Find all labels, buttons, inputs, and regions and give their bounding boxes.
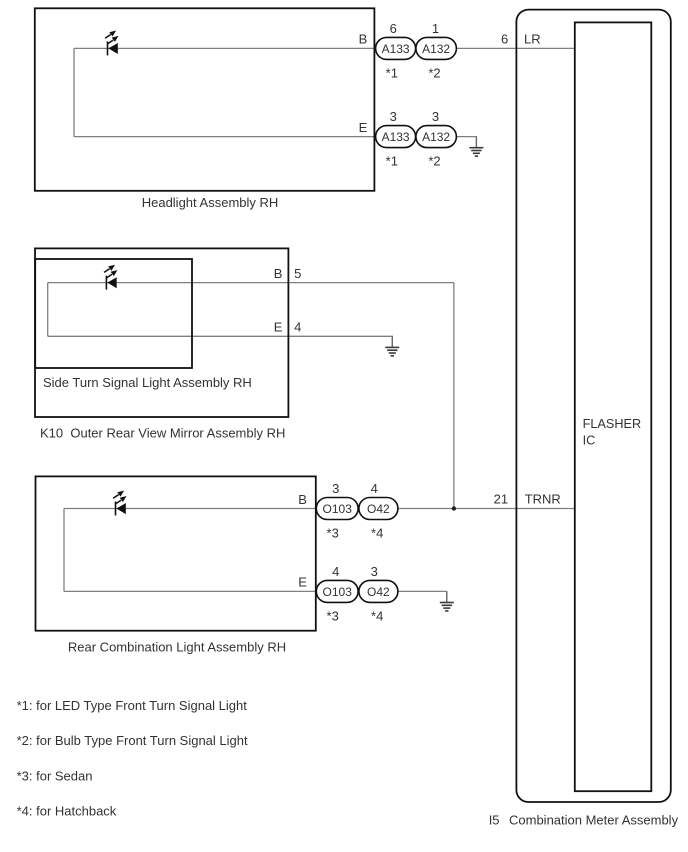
svg-text:6: 6	[501, 32, 508, 47]
svg-text:4: 4	[371, 481, 378, 496]
connector O103 row1	[316, 498, 358, 520]
junction dot	[452, 506, 456, 510]
svg-text:5: 5	[294, 266, 301, 281]
svg-text:1: 1	[432, 21, 439, 36]
svg-text:Rear Combination Light Assembl: Rear Combination Light Assembly RH	[68, 639, 286, 654]
svg-text:TRNR: TRNR	[525, 491, 561, 506]
svg-text:*4: *4	[371, 525, 383, 540]
wire row1 to meter	[456, 47, 574, 49]
svg-text:*4: *4	[371, 608, 383, 623]
svg-text:B: B	[359, 32, 368, 47]
svg-text:Headlight Assembly RH: Headlight Assembly RH	[142, 195, 279, 210]
connector A132 row1	[416, 37, 457, 59]
LED D2 side turn	[104, 265, 117, 290]
svg-text:*2: for Bulb Type Front Turn S: *2: for Bulb Type Front Turn Signal Ligh…	[17, 733, 248, 748]
svg-text:*1: *1	[386, 154, 398, 169]
svg-text:A133: A133	[382, 42, 410, 56]
svg-text:*2: *2	[428, 154, 440, 169]
box Headlight Assembly RH	[35, 8, 375, 191]
LED D3 rear	[113, 491, 126, 516]
svg-text:6: 6	[390, 21, 397, 36]
box FLASHER IC	[575, 22, 652, 791]
svg-text:A132: A132	[422, 42, 450, 56]
box Rear Combination Light Assembly RH	[36, 476, 316, 630]
ground G3	[440, 592, 454, 611]
svg-text:3: 3	[371, 564, 378, 579]
svg-text:A132: A132	[422, 130, 450, 144]
svg-text:*1: *1	[386, 65, 398, 80]
svg-text:FLASHER: FLASHER	[583, 417, 642, 431]
svg-text:E: E	[359, 120, 368, 135]
wire E2 to ground	[48, 336, 393, 347]
connector A133 row1	[376, 37, 416, 59]
svg-text:O42: O42	[367, 502, 390, 516]
svg-text:O103: O103	[323, 502, 353, 516]
svg-text:B: B	[298, 492, 307, 507]
svg-text:4: 4	[332, 564, 339, 579]
svg-text:3: 3	[332, 481, 339, 496]
connector A133 row2	[376, 126, 416, 148]
wire E3	[64, 590, 316, 592]
wire B2	[48, 282, 454, 284]
connector O103 row2	[316, 580, 358, 602]
LED D1 headlight	[105, 31, 118, 56]
svg-text:*2: *2	[428, 65, 440, 80]
svg-text:*4: for Hatchback: *4: for Hatchback	[17, 804, 117, 819]
wire B1 headlight	[74, 47, 376, 49]
box Side Turn Signal Light Assembly RH	[35, 259, 192, 368]
svg-text:3: 3	[390, 109, 397, 124]
wire E1 headlight	[74, 136, 376, 138]
svg-text:Side Turn Signal Light Assembl: Side Turn Signal Light Assembly RH	[43, 375, 252, 390]
wire row2 to ground	[456, 137, 476, 148]
svg-text:*1: for LED Type Front Turn Si: *1: for LED Type Front Turn Signal Light	[17, 698, 248, 713]
box I5 Combination Meter Assembly	[516, 10, 670, 802]
svg-text:Combination Meter Assembly: Combination Meter Assembly	[509, 812, 679, 827]
svg-text:*3: for Sedan: *3: for Sedan	[17, 768, 93, 783]
connector O42 row2	[359, 580, 398, 602]
wire B3	[64, 508, 316, 510]
wire loop left headlight	[73, 48, 75, 136]
svg-text:IC: IC	[583, 434, 596, 448]
wire row1 rear to meter	[398, 508, 574, 510]
svg-text:B: B	[274, 266, 283, 281]
svg-text:*3: *3	[327, 608, 339, 623]
connector A132 row2	[416, 126, 457, 148]
ground G1	[469, 137, 483, 156]
svg-text:E: E	[274, 320, 283, 335]
svg-text:K10 Outer Rear View Mirror As: K10 Outer Rear View Mirror Assembly RH	[40, 426, 285, 441]
svg-text:3: 3	[432, 109, 439, 124]
svg-text:E: E	[298, 575, 307, 590]
ground G2	[385, 337, 399, 356]
svg-text:O42: O42	[367, 585, 390, 599]
wire loop left side turn	[47, 283, 49, 337]
svg-text:LR: LR	[524, 32, 541, 47]
svg-text:A133: A133	[382, 130, 410, 144]
wire B2 down to junction	[453, 283, 455, 509]
svg-text:21: 21	[494, 491, 508, 506]
svg-text:*3: *3	[327, 525, 339, 540]
wire row2 rear to ground	[398, 591, 447, 601]
wire loop left rear	[63, 509, 65, 592]
box K10 Outer Rear View Mirror Assembly RH	[35, 248, 288, 417]
svg-text:O103: O103	[323, 585, 353, 599]
svg-text:I5: I5	[489, 812, 500, 827]
connector O42 row1	[359, 498, 398, 520]
svg-text:4: 4	[294, 320, 301, 335]
